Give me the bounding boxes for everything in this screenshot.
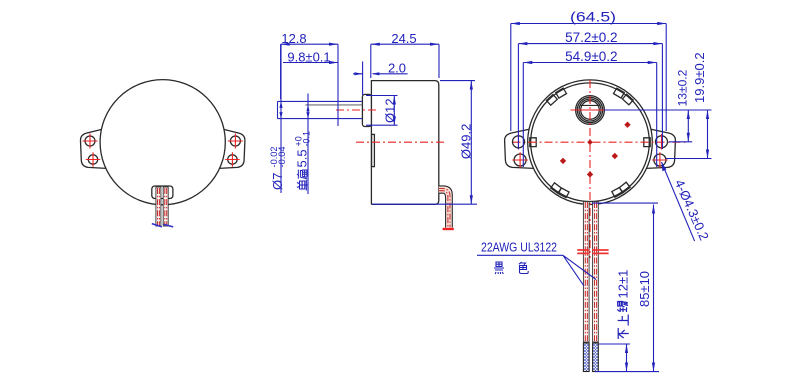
wire break marks (blue)	[152, 224, 173, 227]
shaft flat line	[305, 104, 362, 106]
char 色	[519, 262, 528, 274]
svg-text:-0.1: -0.1	[302, 131, 312, 147]
dim 85±10 (rotated)	[592, 203, 658, 371]
dim Ø12	[366, 96, 398, 126]
char 黑	[494, 262, 504, 274]
svg-text:12±1: 12±1	[616, 270, 631, 299]
shaft crosshair red	[571, 109, 607, 111]
wire 1 right view	[583, 202, 589, 343]
left mounting ear	[80, 129, 106, 169]
red diamonds (pole marks)	[560, 122, 631, 178]
left mounting ear	[505, 129, 534, 169]
ear hole bottom-left	[514, 154, 526, 166]
svg-text:85±10: 85±10	[637, 271, 652, 307]
ext line at flat end	[337, 44, 339, 126]
svg-text:Ø12: Ø12	[382, 98, 397, 123]
dim 19.9±0.2 (rotated)	[666, 110, 712, 159]
right mounting ear	[219, 129, 245, 169]
tinned wire tips	[583, 343, 589, 372]
wire 2 left view	[163, 187, 168, 226]
bottom wire tab	[152, 186, 173, 199]
ear hole top-left	[85, 136, 95, 146]
right mounting ear	[646, 129, 675, 169]
motor outer circle	[528, 80, 653, 205]
char 不	[618, 328, 629, 339]
ear hole top-right	[656, 136, 668, 148]
shaft flat chord	[580, 104, 600, 106]
dim Ø7 (rotated, with tolerances)	[280, 44, 282, 193]
ear hole bottom-right	[228, 155, 237, 164]
shaft centerline (red)	[336, 109, 378, 111]
svg-text:54.9±0.2: 54.9±0.2	[565, 49, 617, 64]
shaft circles	[576, 96, 605, 125]
wire 1 left view	[156, 187, 161, 226]
dim 13±0.2 (rotated)	[669, 110, 692, 142]
motor body (side)	[371, 81, 438, 205]
svg-text:Ø7: Ø7	[270, 173, 285, 190]
svg-text:(64.5): (64.5)	[570, 10, 616, 25]
ear hole top-left	[513, 136, 525, 148]
svg-text:19.9±0.2: 19.9±0.2	[692, 52, 707, 103]
motor body circle	[100, 80, 225, 205]
ear hole bottom-right	[654, 154, 666, 166]
svg-text:5.5: 5.5	[295, 149, 310, 167]
char 上	[618, 315, 629, 326]
dim 5.5 flat (rotated, Chinese 单扁)	[307, 94, 309, 195]
char 单	[297, 180, 309, 191]
wire 2 right view	[593, 202, 599, 343]
ear hole bottom-left	[88, 155, 97, 164]
wire break marks red	[577, 250, 608, 253]
vertical centerline	[589, 80, 591, 258]
svg-text:57.2±0.2: 57.2±0.2	[565, 30, 617, 45]
svg-text:Ø49.2: Ø49.2	[459, 124, 474, 159]
ear hole top-right	[230, 136, 240, 146]
wire end bar (red)	[443, 228, 454, 230]
wire exit middle view	[439, 186, 453, 228]
svg-text:22AWG UL3122: 22AWG UL3122	[481, 240, 557, 255]
char 扁	[297, 170, 307, 179]
horizontal centerline	[513, 141, 687, 143]
leader 4-Ø4.3±0.2	[662, 162, 695, 241]
body seam tab	[372, 134, 375, 166]
char 锡	[617, 302, 628, 313]
label 黑色 (black)	[494, 262, 528, 274]
body centerline (red)	[356, 141, 446, 143]
dim 不上锡12±1 (rotated)	[595, 344, 659, 372]
ext line shaft center to right	[604, 109, 712, 111]
rim tabs	[530, 88, 650, 198]
svg-text:13±0.2: 13±0.2	[676, 69, 690, 106]
svg-text:-0.04: -0.04	[277, 147, 287, 168]
motor inner rim circle	[531, 83, 650, 202]
shaft outline	[278, 101, 363, 118]
dim Ø49.2	[372, 81, 477, 205]
front hub boss	[362, 94, 371, 126]
